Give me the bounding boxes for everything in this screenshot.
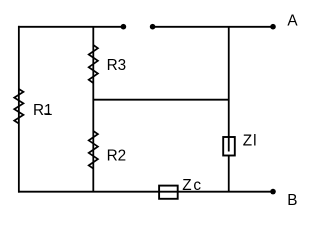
junction dot left of gap (121, 24, 127, 30)
wire middle horizontal segment (93, 99, 228, 101)
terminal B dot (270, 189, 276, 195)
junction dot right of gap (150, 24, 156, 30)
wire stub inside Zl box (228, 137, 230, 152)
svg-text:R3: R3 (107, 57, 127, 74)
svg-text:Zl: Zl (243, 133, 258, 150)
resistor R2 (89, 131, 98, 169)
resistor R1 (14, 89, 23, 124)
svg-text:B: B (287, 192, 297, 209)
wire middle vertical branch (92, 27, 94, 192)
serif of digit 1 in R1 label (44, 113, 50, 115)
svg-text:R1: R1 (33, 102, 53, 119)
terminal A dot (270, 24, 276, 30)
svg-text:R2: R2 (107, 147, 127, 164)
impedance Zl box (223, 137, 235, 156)
resistor R3 (89, 45, 98, 83)
wire top-right horizontal segment to terminal A (153, 26, 273, 28)
svg-text:Zc: Zc (182, 177, 203, 194)
wire bottom horizontal to terminal B (18, 191, 273, 193)
wire top-left horizontal segment (18, 26, 123, 28)
impedance Zc box (159, 186, 178, 199)
wire right vertical branch (228, 27, 230, 192)
wire left vertical branch (18, 26, 20, 193)
svg-text:A: A (287, 12, 298, 29)
